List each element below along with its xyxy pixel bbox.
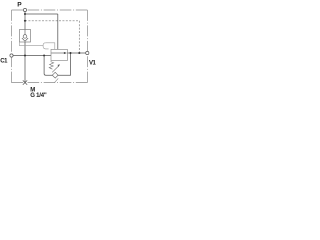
wire hook to relief box top [46,43,55,50]
envelope chain border top [12,9,88,11]
port C1 circle [10,54,13,57]
wire check valve inlet stub [24,30,26,35]
check valve ball [23,35,27,39]
bypass hook curve [43,43,49,49]
node junction dot pilot [78,52,80,54]
wire V1 line [67,52,87,54]
relief valve adjustment arrow [52,66,58,72]
relief valve box [51,49,67,60]
svg-text:G 1/4": G 1/4" [30,93,47,99]
pilot dashed line horizontal y20.8 [25,20,79,22]
node junction dot riser [69,52,71,54]
node junction dot pilot branch [24,20,26,22]
relief valve internal flow arrow [51,52,64,54]
node junction dot at P branch [24,13,26,15]
wire main branch horizontal y14 [25,13,58,15]
port M plug X [23,80,27,84]
svg-text:V1: V1 [89,61,97,67]
check valve box [20,30,31,43]
port V1 circle [86,51,89,54]
wire C1 drop to loop [44,56,53,76]
node junction dot C1-M rail [24,54,26,56]
wire C1 line [13,55,51,57]
relief valve spring [49,62,53,70]
node junction dot C1 drop [43,54,45,56]
port P circle [23,8,26,11]
wire diamond to riser [58,53,71,75]
filter diamond [52,72,58,78]
check valve seat [22,38,28,41]
wire bypass from box left [20,42,44,46]
wire check valve outlet vertical to M [24,42,26,83]
wire main branch vertical x57.8 [57,14,59,49]
svg-text:C1: C1 [0,58,8,64]
envelope chain border left [11,10,13,83]
pilot dashed line vertical x79.3 [78,21,80,53]
envelope chain border bottom [12,82,88,84]
arrow tail through diamond [55,78,59,82]
envelope chain border right [86,10,88,83]
wire P rail vertical [24,10,26,30]
